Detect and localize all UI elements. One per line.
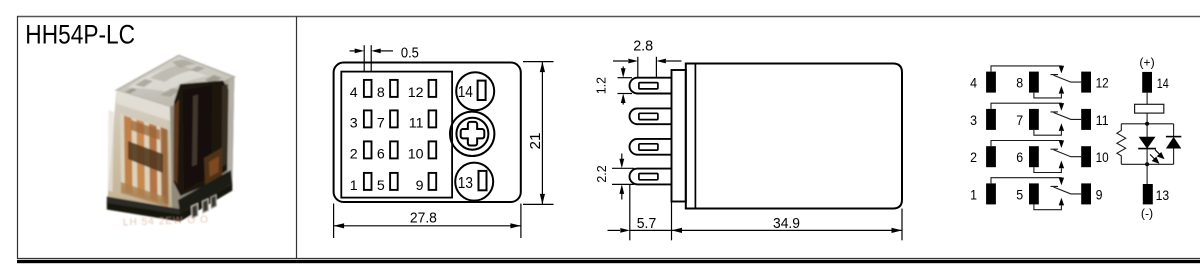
resistor R (zigzag) bbox=[1117, 124, 1126, 165]
schematic bbox=[970, 56, 1181, 221]
dim 21 dimension line bbox=[541, 62, 543, 205]
svg-text:7: 7 bbox=[377, 116, 385, 132]
table frame bottom thin border bbox=[17, 257, 1200, 259]
dim 2.2 extension lines bbox=[612, 167, 634, 169]
svg-text:12: 12 bbox=[408, 85, 424, 101]
pole 1: movable blade bbox=[1051, 75, 1082, 83]
pole 2: NC contact wire bbox=[991, 103, 1061, 109]
copper contact finger 4 bbox=[161, 127, 169, 204]
pole 4: pin 9 bbox=[1081, 183, 1091, 204]
table column divider bbox=[296, 17, 298, 260]
relay body (side view) bbox=[686, 64, 902, 209]
dim 0.5 extension lines bbox=[363, 45, 365, 72]
pin 4 bbox=[364, 80, 372, 97]
diode anode wire bbox=[1173, 149, 1175, 165]
bottom rail bbox=[1121, 163, 1173, 165]
LED anode wire bbox=[1146, 124, 1148, 137]
svg-text:14: 14 bbox=[1157, 75, 1169, 91]
relay top face bbox=[116, 55, 234, 107]
pole 1: NC contact wire bbox=[991, 66, 1061, 72]
case flange bbox=[672, 70, 686, 202]
pin 10 bbox=[429, 141, 437, 158]
pole 4: movable blade bbox=[1051, 186, 1082, 194]
diode cathode bar bbox=[1166, 136, 1181, 138]
pin 1 slot bbox=[639, 83, 658, 89]
pole 1: pin 12 bbox=[1081, 72, 1091, 93]
svg-text:2: 2 bbox=[970, 149, 977, 165]
svg-text:1: 1 bbox=[350, 178, 358, 194]
wire box to top node bbox=[1146, 113, 1148, 124]
LED light arrows bbox=[1150, 150, 1164, 163]
pole 3: NO contact wire bbox=[1034, 167, 1062, 172]
svg-text:9: 9 bbox=[1096, 186, 1103, 202]
pin number labels row 1 bbox=[350, 85, 424, 194]
svg-text:34.9: 34.9 bbox=[773, 215, 800, 232]
pole 2: pin 11 bbox=[1081, 109, 1091, 130]
pin 7 bbox=[390, 110, 398, 127]
svg-text:6: 6 bbox=[377, 147, 385, 163]
pin 13 circle bbox=[455, 163, 493, 201]
pin 1 bbox=[364, 173, 372, 190]
pin 14 blade bbox=[478, 81, 486, 100]
copper contact finger 2 bbox=[137, 120, 146, 199]
pin 4 slot bbox=[639, 174, 658, 180]
pin 2 (side) bbox=[630, 108, 672, 124]
dim 5.7 arrows and line bbox=[608, 229, 621, 231]
pole 4: NC contact wire bbox=[991, 178, 1061, 184]
svg-text:4: 4 bbox=[350, 85, 358, 101]
pin field inner rectangle bbox=[341, 72, 452, 198]
svg-text:8: 8 bbox=[377, 85, 385, 101]
svg-text:9: 9 bbox=[416, 178, 424, 194]
svg-text:1.2: 1.2 bbox=[594, 77, 609, 94]
right face upper light area bbox=[176, 77, 234, 122]
pin 6 bbox=[390, 141, 398, 158]
pin 14 bbox=[1142, 72, 1152, 93]
svg-text:1: 1 bbox=[970, 186, 977, 202]
dim 1.2 arrows bbox=[622, 67, 624, 71]
interior backdrop bbox=[120, 113, 168, 201]
pin 3 bbox=[364, 110, 372, 127]
svg-text:12: 12 bbox=[1096, 75, 1109, 91]
svg-text:7: 7 bbox=[1016, 112, 1023, 128]
dim 5.7/34.9 left extension line bbox=[671, 202, 673, 241]
pin 13 blade bbox=[479, 171, 487, 190]
dim 0.5 arrows bbox=[350, 50, 357, 52]
top node bbox=[1145, 122, 1149, 126]
pin 11 bbox=[429, 110, 437, 127]
pole 1: NO contact wire bbox=[1034, 93, 1062, 98]
pole 3: pin 6 bbox=[1029, 146, 1039, 167]
coil body bbox=[174, 81, 230, 197]
svg-text:5.7: 5.7 bbox=[637, 215, 657, 232]
svg-text:5: 5 bbox=[377, 178, 385, 194]
pin 9 bbox=[429, 173, 437, 190]
svg-text:(-): (-) bbox=[1141, 206, 1153, 220]
contact stack dark blocks bbox=[128, 141, 163, 173]
svg-text:HH54P-LC: HH54P-LC bbox=[25, 20, 135, 50]
svg-text:4: 4 bbox=[970, 75, 977, 91]
lower copper zone bbox=[121, 182, 168, 207]
pin 1 (side) bbox=[630, 78, 672, 94]
base pins right bbox=[192, 204, 199, 219]
svg-text:8: 8 bbox=[1016, 75, 1023, 91]
pole 3: NC contact wire bbox=[991, 141, 1061, 147]
svg-text:6: 6 bbox=[1016, 149, 1023, 165]
LED cathode bar bbox=[1138, 148, 1156, 150]
dim 2.2 arrows bbox=[621, 154, 623, 161]
relay black base front band bbox=[107, 202, 180, 222]
pin 3 (side) bbox=[630, 139, 672, 155]
pole 4: NO contact wire bbox=[1034, 204, 1062, 209]
pin 2 bbox=[364, 141, 372, 158]
top rail bbox=[1121, 123, 1173, 125]
svg-text:3: 3 bbox=[970, 112, 977, 128]
pole 2: movable blade bbox=[1051, 112, 1082, 120]
svg-text:21: 21 bbox=[528, 133, 544, 150]
relay black base right band bbox=[180, 184, 232, 222]
dim 34.9 dimension line bbox=[672, 229, 903, 231]
pin 4 (side) bbox=[630, 169, 672, 185]
dim 34.9 right extension line bbox=[901, 209, 903, 241]
pole 2: pin 7 bbox=[1029, 109, 1039, 130]
dim 5.7 extension line at pin tip bbox=[629, 184, 631, 240]
pole 3: pin 2 bbox=[986, 146, 996, 167]
dim 2.8 extension lines bbox=[637, 57, 639, 77]
svg-text:2: 2 bbox=[350, 147, 358, 163]
pole 3: pin 10 bbox=[1081, 146, 1091, 167]
LED cathode wire bbox=[1146, 149, 1148, 165]
dim 27.8 dimension line bbox=[334, 225, 521, 227]
table frame left border bbox=[17, 16, 19, 259]
svg-text:11: 11 bbox=[1096, 112, 1109, 128]
pin 14 circle bbox=[456, 72, 494, 110]
copper contact finger 1 bbox=[124, 116, 133, 195]
dim 2.8 arrows bbox=[613, 60, 628, 62]
table frame top border bbox=[17, 16, 1200, 18]
svg-text:2.2: 2.2 bbox=[594, 165, 609, 182]
side view drawing bbox=[594, 39, 903, 241]
svg-text:3: 3 bbox=[350, 116, 358, 132]
center screw outer circle bbox=[450, 112, 494, 156]
right case edge light strip bbox=[227, 77, 234, 193]
pin 2 slot bbox=[639, 113, 658, 119]
screw cross recess bbox=[461, 122, 485, 146]
svg-text:11: 11 bbox=[409, 116, 424, 132]
svg-text:5: 5 bbox=[1016, 186, 1023, 202]
relay photo bbox=[107, 55, 235, 228]
pin 12 bbox=[429, 80, 437, 97]
relay case outline (bottom view) bbox=[334, 63, 521, 203]
wire pin14 to coil box bbox=[1146, 93, 1148, 105]
svg-text:0.5: 0.5 bbox=[401, 45, 419, 62]
svg-text:14: 14 bbox=[458, 84, 474, 101]
pole 3: movable blade bbox=[1051, 149, 1082, 157]
relay right face bbox=[170, 77, 234, 219]
bottom view drawing bbox=[334, 45, 554, 238]
case reflections front bbox=[116, 90, 170, 121]
pole 4: pin 5 bbox=[1029, 183, 1039, 204]
dim 1.2 extension lines bbox=[618, 77, 633, 79]
dim 21 extension lines bbox=[523, 61, 554, 63]
pin 5 bbox=[390, 173, 398, 190]
pin 13 bbox=[1143, 184, 1153, 204]
center screw inner circle bbox=[456, 118, 488, 150]
svg-text:10: 10 bbox=[1096, 149, 1109, 165]
svg-text:13: 13 bbox=[458, 175, 473, 192]
coil highlights bbox=[192, 95, 198, 167]
pole 4: pin 1 bbox=[986, 183, 996, 204]
pole 2: NO contact wire bbox=[1034, 130, 1062, 135]
coil resistor box bbox=[1135, 104, 1164, 113]
bottom node bbox=[1145, 162, 1149, 166]
protection diode D bbox=[1173, 124, 1175, 137]
pin 3 slot bbox=[639, 144, 658, 150]
thick bottom rule bbox=[17, 260, 1200, 263]
pole 2: pin 3 bbox=[986, 109, 996, 130]
pole 1: pin 4 bbox=[986, 72, 996, 93]
diode triangle bbox=[1166, 137, 1181, 149]
case edge line bbox=[694, 64, 696, 209]
coil copper bottom blob bbox=[204, 147, 223, 186]
LED triangle bbox=[1139, 137, 1156, 149]
svg-text:2.8: 2.8 bbox=[633, 39, 653, 55]
svg-text:(+): (+) bbox=[1139, 56, 1154, 70]
relay front face bbox=[107, 90, 172, 219]
coil copper left edge bbox=[174, 99, 180, 184]
svg-text:13: 13 bbox=[1156, 187, 1170, 203]
svg-text:10: 10 bbox=[408, 147, 424, 163]
pole 1: pin 8 bbox=[1029, 72, 1039, 93]
pin 8 bbox=[390, 80, 398, 97]
wire bottom node to pin 13 bbox=[1146, 164, 1148, 184]
svg-text:27.8: 27.8 bbox=[410, 209, 437, 226]
dim 27.8 extension lines bbox=[333, 204, 335, 239]
copper contact finger 3 bbox=[149, 124, 158, 203]
